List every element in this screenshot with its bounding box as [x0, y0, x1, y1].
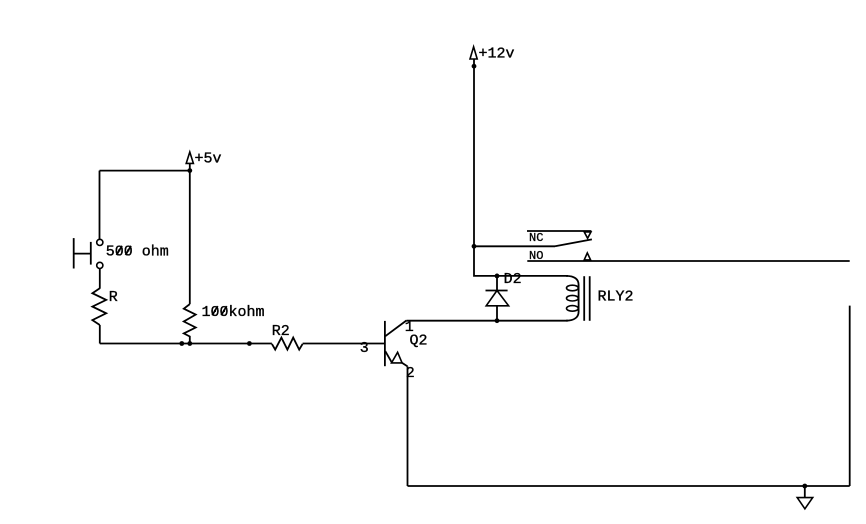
- resistor R: [92, 288, 106, 325]
- junction at +5v tee: [187, 168, 192, 173]
- junction at D2 bottom node: [495, 318, 500, 323]
- wire: NO net right vertical: [849, 306, 851, 486]
- svg-text:500 ohm: 500 ohm: [106, 244, 169, 261]
- value label 100kohm: [202, 304, 265, 321]
- junction dot at D2 anode top: [495, 274, 500, 279]
- resistor 100kohm: [184, 304, 196, 343]
- diode D2: [486, 276, 509, 321]
- junction dot left of 100k: [179, 341, 184, 346]
- svg-text:+12v: +12v: [479, 45, 515, 62]
- svg-text:RLY2: RLY2: [598, 289, 634, 306]
- power +5v symbol: [186, 152, 193, 171]
- svg-text:100kohm: 100kohm: [202, 304, 265, 321]
- value label 500 ohm: [106, 244, 169, 261]
- svg-text:R2: R2: [272, 323, 290, 340]
- NO contact line: [527, 260, 849, 262]
- wire: R2 to Q2 base: [303, 343, 385, 345]
- resistor R2: [272, 338, 303, 350]
- svg-text:D2: D2: [504, 271, 522, 288]
- wire: bottom return: [408, 485, 850, 487]
- junction dot below +12v: [472, 64, 477, 69]
- relay coil RLY2: [566, 276, 590, 321]
- junction at ground tee: [802, 484, 807, 489]
- wire: down to pushbutton top contact: [99, 171, 101, 240]
- junction dot at 100k foot: [187, 341, 192, 346]
- transistor Q2: [385, 321, 408, 367]
- svg-text:NC: NC: [529, 231, 543, 245]
- wire: +5v rail horizontal to switch branch: [100, 170, 190, 172]
- NC contact line: [527, 230, 591, 232]
- svg-text:NO: NO: [529, 249, 543, 263]
- ground symbol: [797, 486, 813, 509]
- power +12v symbol: [470, 47, 477, 66]
- wire: tee down to corner and right to D2 top: [474, 246, 568, 276]
- NC contact marker: [584, 232, 591, 238]
- wire: collector node horizontal to relay coil bottom: [406, 320, 568, 322]
- wire: resistor R to bottom node: [99, 325, 101, 344]
- wire: relay common lever arm: [474, 239, 592, 246]
- svg-text:3: 3: [360, 340, 369, 357]
- NO contact marker: [584, 253, 590, 260]
- pushbutton switch S1: [74, 238, 103, 268]
- wire: +5v rail down to 100k resistor: [189, 171, 191, 305]
- junction at relay common tee: [472, 244, 477, 249]
- svg-text:R: R: [109, 289, 118, 306]
- wire: pushbutton bottom contact to resistor R: [99, 269, 101, 289]
- svg-text:+5v: +5v: [195, 151, 222, 168]
- junction dot mid node: [247, 341, 252, 346]
- wire: bottom node horizontal: [100, 343, 272, 345]
- wire: emitter down: [407, 366, 409, 486]
- wire: +12v down to relay common tee: [473, 66, 475, 246]
